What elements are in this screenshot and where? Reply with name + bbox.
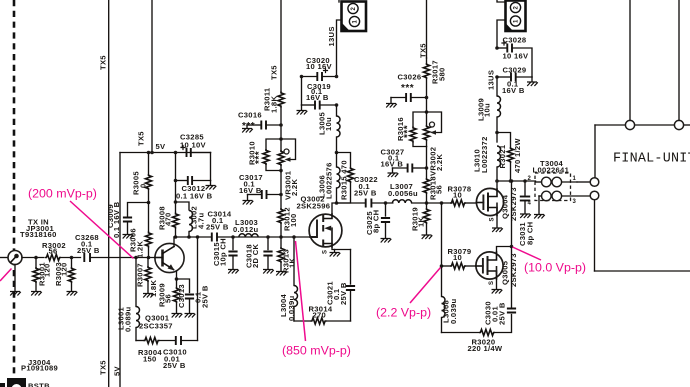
wire TX5 bias column — [280, 0, 282, 92]
node rail R3021 — [509, 179, 513, 183]
ground C3013 — [185, 314, 196, 318]
svg-text:2.2K: 2.2K — [435, 154, 444, 171]
capacitor C3009 — [123, 218, 132, 235]
node C3027 tap — [425, 166, 429, 170]
inductor L3005 — [337, 105, 341, 153]
svg-text:100: 100 — [289, 213, 298, 227]
capacitor C3026 — [391, 93, 427, 103]
callout line 200mV — [70, 201, 134, 259]
wire TX5 vertical left — [108, 0, 110, 387]
capacitor C3012 — [176, 176, 211, 185]
ground C3026 — [386, 104, 397, 108]
node collector — [174, 235, 178, 239]
svg-text:***: *** — [403, 125, 414, 138]
svg-text:16V B: 16V B — [306, 93, 329, 102]
node feedback top — [196, 235, 200, 239]
node C3016 tap — [279, 123, 283, 127]
ground R3007 — [143, 294, 154, 298]
transistor Q3001 — [155, 243, 184, 272]
connector 13US pins 1-2 — [342, 2, 367, 32]
svg-text:2SK2973: 2SK2973 — [509, 187, 518, 221]
svg-text:25V B: 25V B — [201, 285, 210, 308]
node R3018 bottom — [425, 201, 429, 205]
node C3028 — [495, 46, 499, 50]
svg-text:R3015 470: R3015 470 — [340, 160, 349, 200]
terminal circle top2 — [674, 120, 683, 129]
connector 13US top right — [506, 1, 526, 32]
svg-text:2SK2973: 2SK2973 — [509, 253, 518, 287]
svg-text:2D CK: 2D CK — [251, 243, 260, 268]
svg-text:150: 150 — [143, 355, 157, 364]
svg-text:(2.2 Vp-p): (2.2 Vp-p) — [376, 306, 431, 320]
terminal circle out2 — [590, 191, 599, 200]
resistor R3021 — [497, 133, 514, 182]
inductor L3009 — [497, 77, 501, 142]
svg-text:10u: 10u — [324, 117, 333, 131]
svg-text:470: 470 — [164, 212, 173, 226]
ground C3015 — [228, 270, 239, 274]
svg-text:56: 56 — [49, 247, 58, 256]
connector JP3001 input jack — [8, 251, 22, 265]
node C3029 — [495, 75, 499, 79]
capacitor C3029 — [497, 73, 532, 82]
callout line 10V — [513, 247, 542, 260]
wire — [412, 202, 452, 204]
svg-text:S: S — [323, 250, 329, 254]
wire TX5 right column — [426, 0, 428, 58]
resistor R3012 — [278, 208, 284, 237]
wire drain rail — [497, 180, 536, 182]
svg-text:56: 56 — [435, 185, 444, 194]
svg-text:TX5: TX5 — [99, 360, 108, 375]
corner mark — [0, 383, 5, 387]
svg-text:0.039u: 0.039u — [287, 295, 296, 321]
node rail bus — [510, 179, 514, 183]
svg-text:120: 120 — [60, 262, 69, 276]
ground Q3002 source — [330, 250, 341, 257]
svg-text:2SK2596: 2SK2596 — [297, 202, 331, 211]
ground C3019 — [297, 105, 308, 115]
input stub — [0, 257, 8, 259]
node R3021 top — [495, 131, 499, 135]
wire — [280, 171, 282, 209]
node rail-R3005 — [147, 151, 151, 155]
resistor R3014 — [294, 318, 351, 324]
node R3001 — [34, 256, 38, 260]
svg-text:5V: 5V — [113, 365, 122, 376]
wire stage3 line — [337, 202, 366, 204]
wire emitter down — [176, 272, 178, 280]
svg-text:16V B: 16V B — [502, 86, 525, 95]
svg-text:0.1 16V B: 0.1 16V B — [176, 192, 213, 201]
svg-text:T9318160: T9318160 — [20, 230, 57, 239]
svg-text:16V B: 16V B — [239, 186, 262, 195]
ground C3017 — [243, 201, 254, 205]
wire R3078 to gate — [466, 202, 476, 204]
svg-text:1.8K: 1.8K — [270, 96, 279, 113]
svg-text:R3021: R3021 — [498, 144, 507, 168]
node C3012 left — [174, 179, 178, 183]
inductor L3001 — [136, 258, 140, 341]
resistor R3020 — [479, 329, 495, 335]
resistor R3011 — [278, 92, 284, 140]
node C3026 tap — [425, 96, 429, 100]
svg-text:1K: 1K — [417, 216, 426, 227]
node rail-C3285 — [174, 151, 178, 155]
svg-text:0.089u: 0.089u — [124, 306, 133, 332]
svg-text:(850 mVp-p): (850 mVp-p) — [282, 344, 351, 358]
node C3019 right — [335, 103, 339, 107]
svg-text:C3013: C3013 — [177, 284, 186, 308]
wire Q3004 source down — [496, 216, 498, 228]
resistor R3005 — [145, 153, 151, 203]
resistor R3015 — [337, 153, 354, 204]
node divider top — [279, 137, 283, 141]
capacitor C3010 — [176, 336, 198, 345]
node R3005 bottom — [147, 201, 151, 205]
svg-text:470 1/2W: 470 1/2W — [513, 138, 522, 173]
mosfet Q3004 — [476, 188, 503, 215]
ground T3004 pin4 — [534, 215, 545, 219]
svg-text:5V: 5V — [156, 142, 167, 151]
ground C3027 — [388, 173, 399, 177]
wire input line — [22, 257, 44, 259]
wire feedback bottom — [136, 340, 144, 342]
ground C3009 — [123, 235, 134, 239]
resistor R3018 — [423, 178, 429, 203]
svg-text:4.7u: 4.7u — [197, 213, 206, 229]
svg-text:L0022641: L0022641 — [533, 166, 570, 175]
wire antenna1 — [629, 0, 631, 120]
svg-text:8p CH: 8p CH — [372, 210, 381, 233]
terminal circle top1 — [625, 120, 634, 129]
node R3079 branch — [440, 201, 444, 205]
capacitor C3025 — [381, 203, 390, 238]
wire collector up — [173, 237, 175, 247]
svg-text:0.012u: 0.012u — [233, 225, 259, 234]
svg-text:L0022372: L0022372 — [480, 136, 489, 173]
svg-text:TX5: TX5 — [419, 43, 428, 58]
svg-text:0.1 16V B: 0.1 16V B — [112, 201, 121, 238]
svg-text:R3005: R3005 — [132, 171, 141, 195]
ground R3009 — [172, 314, 183, 318]
svg-text:120: 120 — [43, 263, 52, 277]
svg-text:S: S — [490, 217, 496, 221]
svg-text:13US: 13US — [327, 26, 336, 46]
wire Q3002 source down — [332, 247, 351, 250]
svg-text:0: 0 — [139, 183, 148, 188]
svg-text:25V B: 25V B — [163, 361, 186, 370]
inductor L3008 — [442, 266, 446, 333]
ground C3031 — [520, 214, 531, 218]
node C3020 right — [335, 75, 339, 79]
capacitor C3013 — [177, 279, 195, 313]
inductor L3007 — [392, 200, 411, 203]
wire L3002 branch — [176, 202, 190, 210]
final unit box — [595, 125, 690, 271]
mosfet Q3002 — [309, 214, 342, 247]
node C3017 tap — [279, 193, 283, 197]
wire TX5 feed vertical — [151, 0, 153, 153]
dashed unit border line — [13, 0, 16, 377]
svg-text:10 10V: 10 10V — [180, 141, 207, 150]
wire — [160, 340, 176, 342]
wire feedback2 bottom — [442, 332, 480, 334]
transformer T3004 — [535, 173, 590, 214]
resistor R3017 — [423, 58, 429, 112]
svg-text:C3016: C3016 — [238, 111, 262, 120]
svg-text:25V B: 25V B — [498, 302, 507, 325]
svg-text:P1091089: P1091089 — [21, 364, 58, 373]
resistor R3002 — [45, 254, 61, 260]
svg-text:270: 270 — [313, 311, 327, 320]
resistor R3003 — [68, 258, 74, 292]
svg-text:580: 580 — [438, 67, 447, 81]
svg-text:(10.0 Vp-p): (10.0 Vp-p) — [524, 261, 586, 275]
capacitor C3028 — [497, 41, 532, 77]
wire bias node — [128, 203, 149, 217]
ground C3029 — [527, 77, 538, 86]
svg-text:BSTB: BSTB — [28, 382, 50, 387]
svg-text:25V B: 25V B — [354, 189, 377, 198]
ground C3016 — [242, 129, 253, 133]
capacitor C3022 — [366, 199, 393, 208]
node divider2 top — [425, 110, 429, 114]
node drain supply top — [335, 151, 339, 155]
node C3015 tap — [231, 235, 235, 239]
svg-text:TX5: TX5 — [270, 65, 279, 80]
resistor R3010 — [263, 139, 281, 171]
callout line 2.2V — [410, 268, 441, 304]
svg-text:C3028: C3028 — [503, 36, 527, 45]
ground input jack — [10, 265, 21, 296]
wire pin1 lead — [337, 20, 342, 77]
resistor R3019 — [423, 203, 429, 235]
svg-text:L0022576: L0022576 — [325, 162, 334, 199]
ground Q3005 source — [492, 290, 503, 294]
capacitor C3014 — [212, 233, 217, 242]
callout line 850mV — [296, 241, 306, 341]
svg-text:25V B: 25V B — [339, 282, 348, 305]
ground R3001 — [31, 292, 42, 296]
wire feedback riser — [197, 237, 199, 341]
svg-text:10u: 10u — [483, 103, 492, 117]
svg-text:25V B: 25V B — [77, 246, 100, 255]
svg-text:0.0056u: 0.0056u — [388, 189, 418, 198]
capacitor C3018 — [263, 237, 272, 269]
ground R3019 — [422, 235, 433, 239]
ground C3025 — [381, 239, 392, 243]
svg-text:10p CH: 10p CH — [219, 238, 228, 266]
ground R3013 — [276, 272, 287, 276]
svg-text:13US: 13US — [487, 70, 496, 90]
capacitor C3031 — [520, 181, 530, 214]
inductor L3010 — [497, 146, 501, 181]
capacitor C3030 — [507, 247, 516, 313]
svg-text:56: 56 — [164, 294, 173, 303]
wire collector supply vertical — [175, 153, 177, 213]
ground C3018 — [263, 270, 274, 274]
ground R3003 — [67, 292, 78, 296]
svg-text:10 16V: 10 16V — [503, 52, 530, 61]
wire branch down — [441, 203, 443, 266]
node L3004 tap — [292, 235, 296, 239]
inductor L3004 — [294, 237, 298, 321]
wire 5V vertical — [119, 153, 121, 387]
node L3002 bottom — [187, 235, 191, 239]
resistor R3001 — [33, 258, 39, 292]
wire Q3004 drain up — [496, 181, 498, 189]
capacitor C3285 — [181, 146, 211, 158]
wire collector rail — [174, 236, 212, 238]
node C3025 tap — [384, 201, 388, 205]
node divider bottom — [279, 169, 283, 173]
wire gate line — [217, 236, 309, 238]
node rail C3031 — [523, 179, 527, 183]
capacitor C3027 — [393, 164, 427, 173]
wire pin1 lead right — [497, 20, 506, 48]
wire — [426, 147, 428, 179]
node bus Q3005 — [510, 245, 514, 249]
svg-text:220 1/4W: 220 1/4W — [468, 344, 503, 353]
svg-text:1K: 1K — [288, 257, 297, 268]
svg-text:TX5: TX5 — [99, 55, 108, 70]
node base bias — [147, 256, 151, 260]
wire pin2 stub right — [497, 0, 506, 2]
resistor R3006 — [145, 203, 151, 258]
terminal circle out1 — [590, 178, 599, 187]
node Q3002 drain — [335, 201, 339, 205]
svg-text:10 16V: 10 16V — [306, 62, 333, 71]
svg-text:25V B: 25V B — [206, 223, 229, 232]
capacitor C3021 — [346, 250, 355, 322]
svg-text:2.2K: 2.2K — [290, 179, 299, 196]
capacitor C3020 — [302, 69, 337, 82]
wire Q3005 source down — [496, 279, 498, 289]
node R3003 — [70, 256, 74, 260]
wire C3285 right down — [210, 153, 212, 181]
svg-text:R3007: R3007 — [136, 263, 145, 287]
node C3020 left — [300, 75, 304, 79]
wire drain bus vertical — [511, 181, 513, 247]
node rail Q3004 — [495, 179, 499, 183]
svg-text:FINAL-UNIT: FINAL-UNIT — [613, 152, 690, 167]
resistor R3079 — [442, 263, 476, 269]
svg-text:***: *** — [254, 151, 265, 164]
svg-text:10: 10 — [453, 191, 462, 200]
resistor R3008 — [172, 213, 178, 238]
capacitor C3019 — [302, 77, 337, 110]
resistor R3009 — [173, 279, 179, 313]
wire pin2 stub — [338, 0, 340, 2]
svg-text:(200 mVp-p): (200 mVp-p) — [28, 187, 97, 201]
node rail-TX5 — [150, 151, 154, 155]
mosfet Q3005 — [476, 252, 503, 279]
node R3079 — [440, 264, 444, 268]
potentiometer VR3002 — [423, 112, 441, 147]
connector J3004 block — [7, 378, 26, 387]
node R3008 top — [174, 200, 178, 204]
svg-text:8p CH: 8p CH — [526, 222, 535, 245]
svg-text:16V B: 16V B — [381, 160, 404, 169]
wire antenna2 — [678, 0, 680, 120]
svg-text:***: *** — [401, 83, 414, 94]
wire 5V rail — [120, 152, 211, 154]
wire Q3005 drain up — [497, 247, 512, 253]
svg-text:C3026: C3026 — [398, 73, 422, 82]
wire Q3002 drain up — [332, 203, 337, 214]
capacitor C3016 — [247, 121, 281, 130]
svg-text:2SC3357: 2SC3357 — [139, 322, 173, 331]
resistor R3007 — [145, 258, 151, 294]
inductor L3002 — [189, 211, 193, 238]
svg-text:C3029: C3029 — [503, 66, 527, 75]
node gate bias — [279, 235, 283, 239]
inductor L3003 — [239, 234, 258, 237]
wire — [495, 315, 512, 333]
svg-text:0.039u: 0.039u — [449, 298, 458, 324]
svg-text:10: 10 — [453, 253, 462, 262]
resistor R3078 — [450, 200, 466, 206]
capacitor C3268 — [84, 253, 155, 262]
node emitter — [175, 277, 179, 281]
svg-text:1.2K: 1.2K — [136, 241, 145, 258]
ground Q3004 source — [492, 228, 503, 232]
wire — [61, 257, 81, 259]
resistor R3013 — [278, 237, 284, 271]
resistor R3004 — [144, 337, 160, 343]
svg-text:S: S — [489, 281, 495, 285]
svg-text:TX5: TX5 — [137, 131, 146, 146]
capacitor C3017 — [248, 190, 282, 200]
node C3018 tap — [266, 235, 270, 239]
resistor R3016 — [410, 112, 427, 147]
ground C3012 — [206, 181, 217, 190]
inductor L3006 — [337, 153, 341, 204]
potentiometer VR3001 — [278, 139, 296, 172]
callout line input — [0, 269, 12, 282]
node L3001 tap — [134, 256, 138, 260]
capacitor C3015 — [228, 237, 237, 269]
